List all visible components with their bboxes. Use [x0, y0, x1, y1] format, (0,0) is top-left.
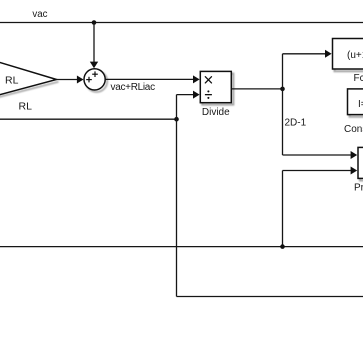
svg-text:RL: RL	[19, 101, 33, 113]
sum block shadow	[86, 71, 107, 92]
wire feedback up to divide input 2	[177, 91, 200, 120]
junction (vac branch)	[92, 20, 97, 25]
constant block shadow	[350, 91, 363, 117]
constant block	[348, 89, 363, 115]
gain RL	[0, 62, 57, 96]
wire gain to sum	[57, 76, 84, 84]
sum block	[84, 69, 105, 90]
wire product input 2 from lower bus	[283, 167, 358, 247]
divide sign divide	[205, 90, 212, 99]
sum sign top input	[92, 71, 98, 77]
svg-text:Cons: Cons	[344, 124, 363, 135]
svg-text:(u+1: (u+1	[347, 50, 363, 61]
Fcn block	[333, 39, 363, 70]
wire junction up to Fcn	[283, 50, 332, 89]
wire middle bus (y=246.6)	[0, 246, 363, 248]
wire left feedback (horizontal y=119)	[0, 118, 177, 120]
product block shadow	[360, 150, 363, 181]
wire junction down to product input 1	[283, 89, 358, 159]
divide block U Divide	[200, 71, 231, 102]
gain RL shadow	[0, 82, 59, 98]
product block	[358, 147, 363, 178]
junction divide output	[280, 87, 285, 92]
svg-text:Pr: Pr	[354, 182, 363, 193]
svg-text:RL: RL	[5, 75, 19, 87]
svg-text:Divide: Divide	[202, 107, 230, 118]
wire sum to divide	[105, 75, 199, 83]
svg-text:I=: I=	[358, 99, 363, 110]
svg-text:Fcn: Fcn	[354, 73, 363, 84]
wire vac (top horizontal)	[0, 22, 363, 24]
junction at feedback branch	[174, 117, 179, 122]
divide block shadow	[202, 74, 233, 105]
junction middle bus	[280, 244, 285, 249]
svg-text:vac: vac	[32, 9, 47, 20]
svg-text:2D-1: 2D-1	[285, 117, 307, 128]
wire feedback down-right (to lower bus)	[177, 119, 363, 296]
wire vac to sum	[90, 23, 98, 69]
Fcn block shadow	[335, 41, 363, 71]
divide sign multiply	[205, 77, 211, 83]
sum sign left input	[86, 77, 92, 83]
wire divide output	[231, 88, 282, 90]
svg-text:vac+RLiac: vac+RLiac	[111, 82, 156, 93]
